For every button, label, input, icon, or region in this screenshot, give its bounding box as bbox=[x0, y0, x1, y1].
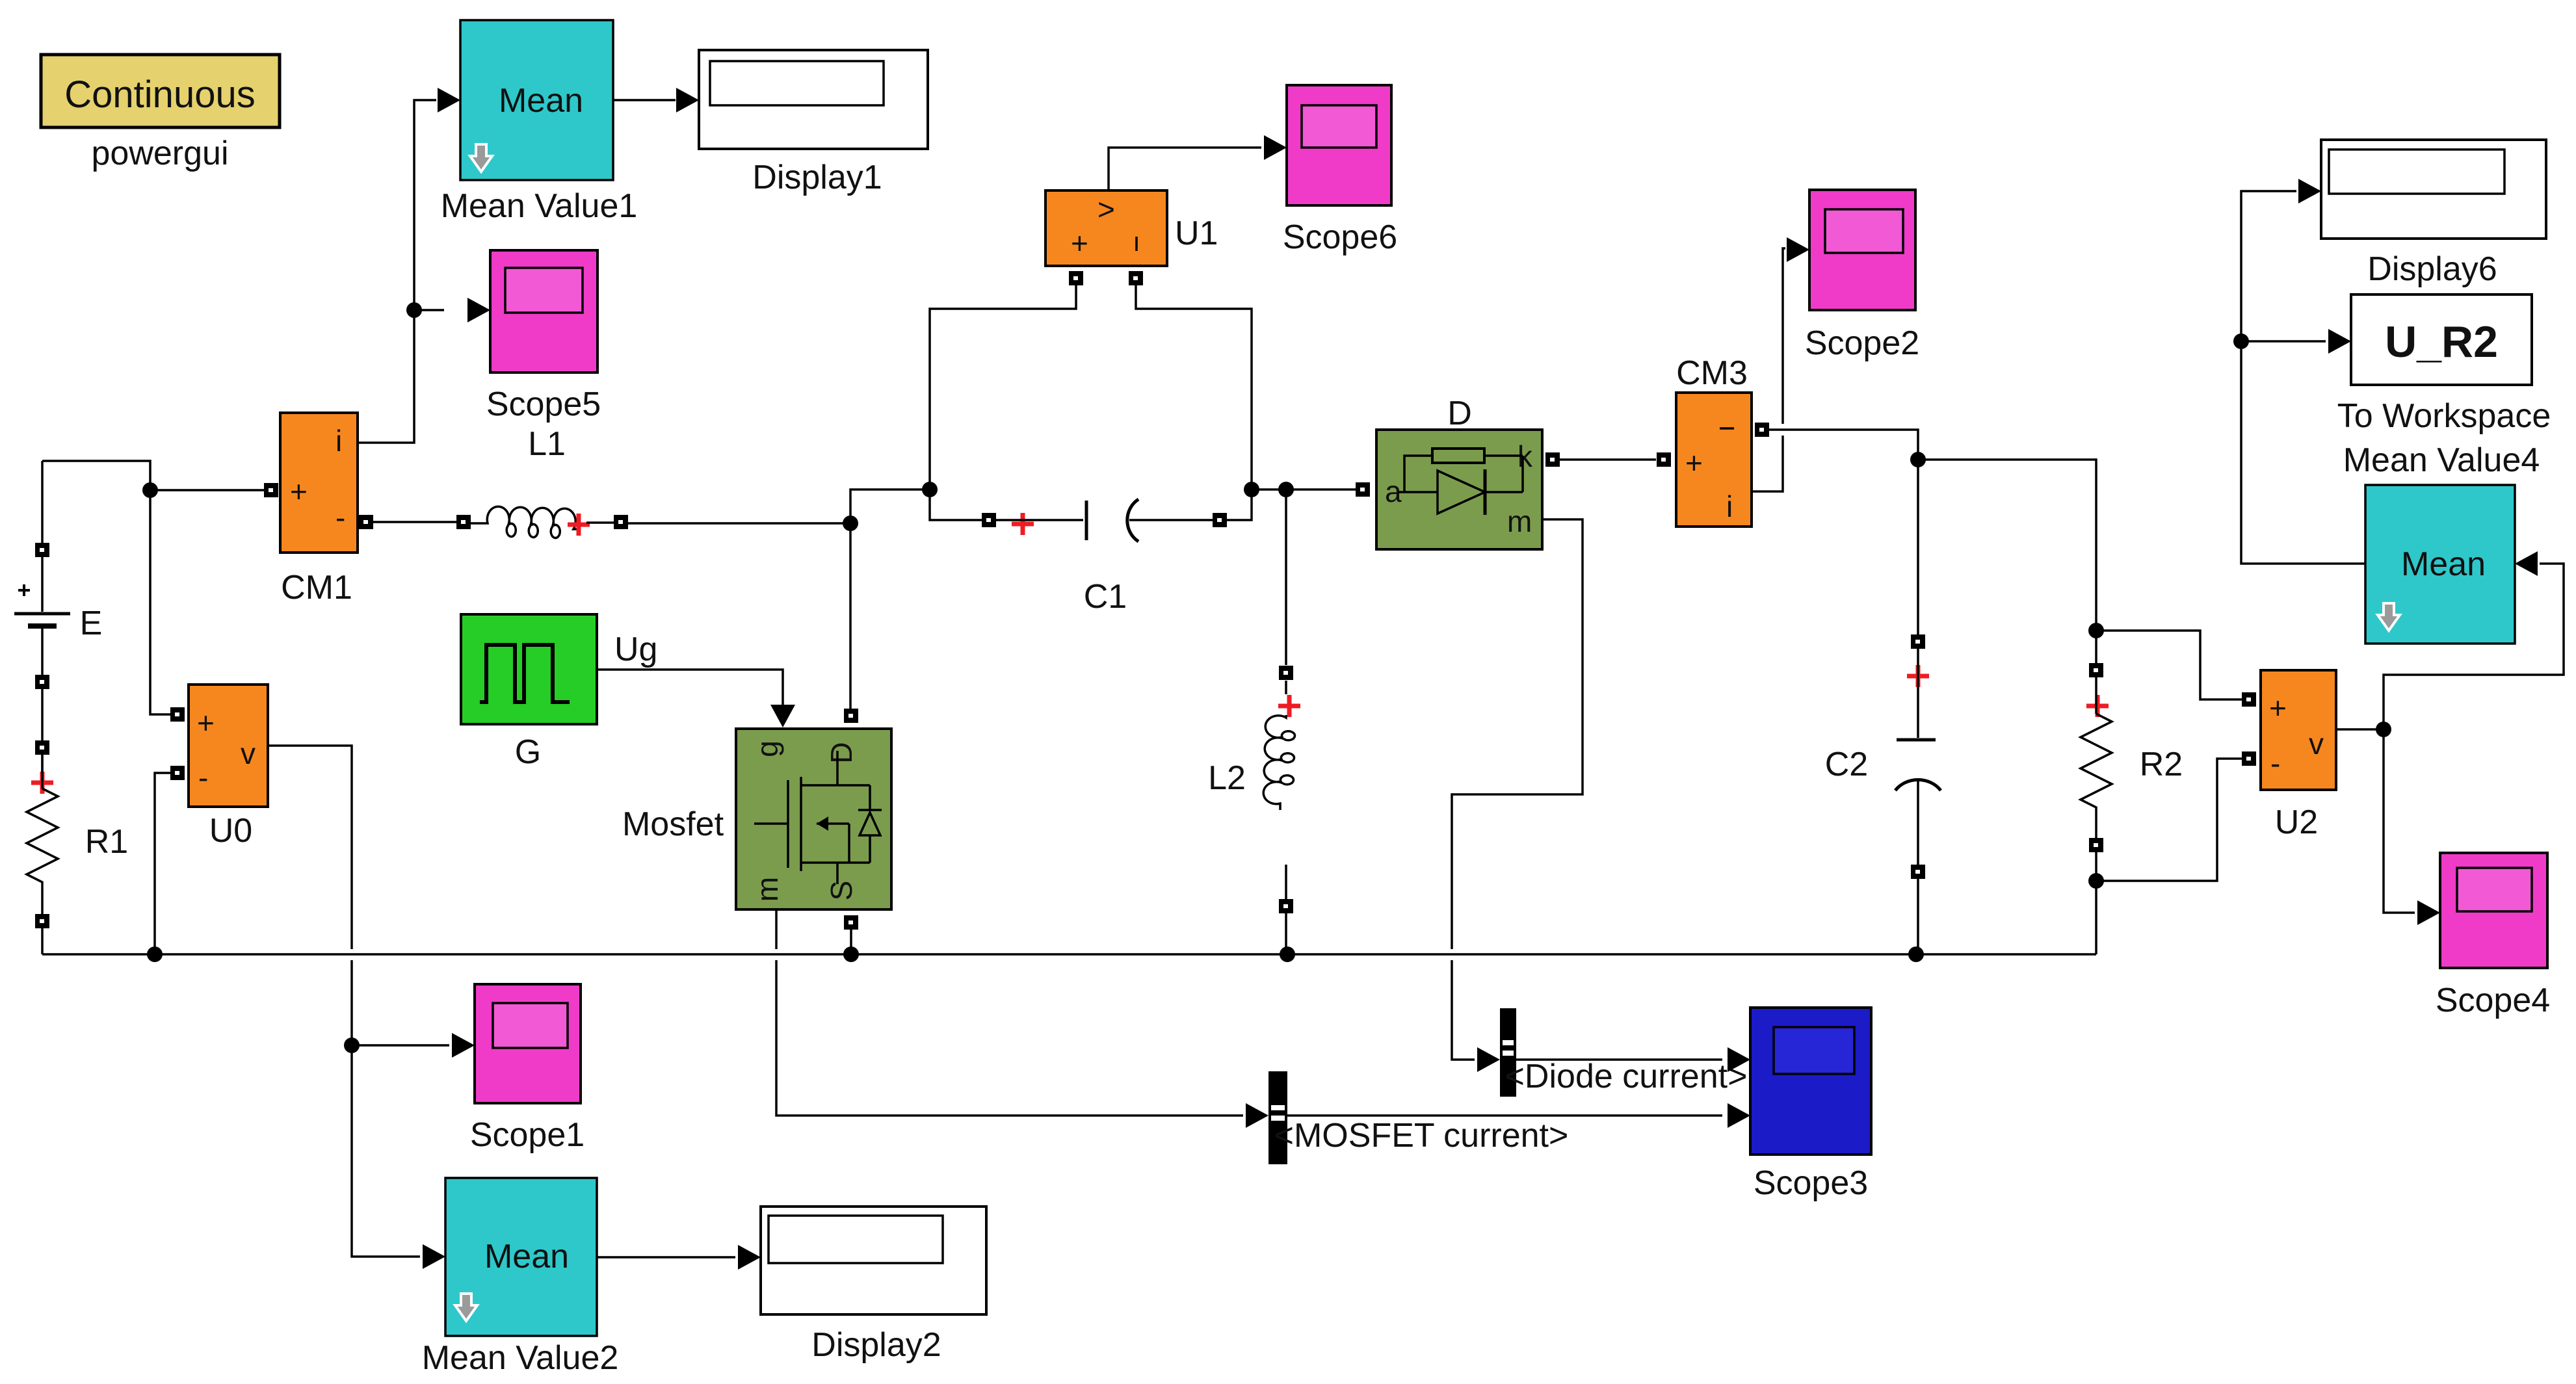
svg-text:Mean Value1: Mean Value1 bbox=[441, 187, 638, 225]
wire U0 minus to ground bus bbox=[155, 773, 177, 954]
wire CM3 minus output bbox=[1755, 423, 1769, 437]
svg-text:CM3: CM3 bbox=[1676, 354, 1748, 392]
diode D bbox=[1356, 430, 1542, 549]
wire R2 top to U2 plus bbox=[2096, 631, 2242, 699]
svg-text:Display1: Display1 bbox=[752, 159, 882, 196]
svg-text:U0: U0 bbox=[209, 812, 252, 850]
svg-text:i: i bbox=[1726, 490, 1733, 523]
inductor L1 bbox=[471, 506, 628, 538]
svg-text:+: + bbox=[1071, 226, 1088, 260]
resistor R1 bbox=[27, 740, 58, 954]
wire U2 to Scope4 bbox=[2384, 729, 2415, 913]
battery E bbox=[14, 461, 70, 783]
capacitor C1 bbox=[982, 499, 1227, 542]
node A (L1/Mosfet/C1) bbox=[843, 516, 858, 531]
svg-text:Scope2: Scope2 bbox=[1805, 324, 1919, 362]
wire CM1 i output to Mean Value1 / Scope5 bbox=[358, 100, 436, 443]
node battery/CM1/U0 junction bbox=[142, 482, 158, 498]
Scope4 bbox=[2440, 853, 2547, 968]
current measurement CM3 bbox=[1676, 393, 1752, 527]
wire U1 to Scope6 bbox=[1109, 148, 1261, 190]
wire Mean Value4 output to Display6 and To Workspace bbox=[2241, 191, 2365, 564]
svg-text:v: v bbox=[241, 737, 256, 770]
current measurement CM1 bbox=[264, 413, 358, 553]
svg-text:Scope4: Scope4 bbox=[2436, 982, 2550, 1019]
svg-text:+: + bbox=[2269, 691, 2287, 725]
powergui block (Continuous) bbox=[41, 55, 280, 127]
signal tap Diode current bbox=[1500, 1008, 1516, 1097]
svg-text:To Workspace: To Workspace bbox=[2337, 397, 2551, 435]
svg-text:C2: C2 bbox=[1825, 746, 1868, 783]
pulse generator G bbox=[461, 614, 597, 724]
svg-text:Display6: Display6 bbox=[2367, 250, 2497, 288]
svg-text:Scope5: Scope5 bbox=[486, 385, 601, 423]
capacitor C2 bbox=[1895, 460, 1941, 954]
node D (L2 top) bbox=[1278, 482, 1294, 497]
svg-text:-: - bbox=[335, 501, 345, 534]
voltage measurement U2 bbox=[2242, 670, 2336, 790]
svg-text:L1: L1 bbox=[528, 425, 566, 463]
svg-text:m: m bbox=[1507, 504, 1532, 538]
wire battery top to CM1 and U0 bbox=[42, 461, 264, 490]
wire CM3 i to Scope2 bbox=[1752, 248, 1785, 491]
Mosfet source port and wire to bus bbox=[844, 915, 858, 930]
wire D m to diode-current tap bbox=[1452, 519, 1583, 1060]
svg-text:m: m bbox=[750, 877, 784, 902]
svg-text:CM1: CM1 bbox=[281, 569, 352, 607]
svg-text:Mean Value2: Mean Value2 bbox=[422, 1339, 619, 1377]
svg-text:U1: U1 bbox=[1175, 215, 1218, 252]
svg-text:g: g bbox=[750, 740, 784, 757]
Scope1 bbox=[475, 984, 581, 1103]
svg-text:Mean: Mean bbox=[484, 1238, 569, 1275]
svg-text:Mean Value4: Mean Value4 bbox=[2343, 441, 2540, 479]
wire L1 to node A bbox=[628, 522, 850, 525]
wire bottom ground bus bbox=[42, 953, 2096, 956]
svg-text:L2: L2 bbox=[1208, 759, 1246, 797]
svg-text:Display2: Display2 bbox=[811, 1326, 941, 1364]
svg-text:R2: R2 bbox=[2140, 746, 2183, 783]
svg-text:U2: U2 bbox=[2275, 803, 2318, 841]
node ground bus left bbox=[147, 947, 163, 962]
signal tap MOSFET current bbox=[1268, 1071, 1287, 1164]
svg-text:D: D bbox=[1447, 395, 1472, 432]
Scope3 bbox=[1750, 1008, 1871, 1155]
voltage measurement U0 bbox=[170, 685, 268, 807]
svg-text:Scope3: Scope3 bbox=[1754, 1164, 1868, 1202]
svg-text:Mean: Mean bbox=[2401, 545, 2486, 583]
svg-text:<Diode current>: <Diode current> bbox=[1505, 1058, 1748, 1095]
svg-text:U_R2: U_R2 bbox=[2385, 317, 2498, 367]
svg-text:i: i bbox=[335, 424, 342, 458]
svg-text:G: G bbox=[515, 733, 541, 771]
svg-text:Scope1: Scope1 bbox=[470, 1116, 585, 1154]
Display2 bbox=[761, 1207, 986, 1314]
wire D k to CM3 bbox=[1545, 452, 1560, 467]
wire U0 v output down bbox=[268, 746, 420, 1257]
svg-text:Continuous: Continuous bbox=[64, 73, 255, 116]
svg-text:S: S bbox=[824, 881, 858, 901]
svg-text:Mosfet: Mosfet bbox=[622, 805, 724, 843]
svg-text:powergui: powergui bbox=[91, 135, 228, 172]
svg-text:E: E bbox=[80, 605, 103, 642]
wire Mosfet m output to MOSFET current tap bbox=[776, 909, 1243, 1116]
svg-text:+: + bbox=[290, 475, 308, 508]
svg-text:+: + bbox=[197, 706, 215, 740]
wire tap to Scope3 lower input bbox=[1287, 1114, 1722, 1117]
Mosfet block bbox=[736, 729, 891, 909]
voltage measurement U1 bbox=[1045, 190, 1167, 285]
svg-text:>: > bbox=[1097, 192, 1115, 226]
Scope5 bbox=[490, 250, 598, 372]
svg-text:Mean: Mean bbox=[499, 82, 583, 120]
wire R2 bottom to U2 minus bbox=[2096, 759, 2242, 881]
svg-text:Scope6: Scope6 bbox=[1283, 218, 1397, 256]
Mean Value4 block bbox=[2365, 485, 2515, 644]
wire C1 right to node C bbox=[1227, 490, 1252, 520]
Scope6 bbox=[1287, 85, 1391, 205]
To Workspace block U_R2 bbox=[2351, 294, 2532, 385]
svg-text:-: - bbox=[2270, 746, 2280, 780]
svg-text:-: - bbox=[198, 761, 208, 794]
svg-text:v: v bbox=[2309, 727, 2324, 761]
svg-text:Ug: Ug bbox=[614, 631, 657, 668]
Mosfet drain port bbox=[844, 709, 858, 723]
node R2 bottom bbox=[2088, 873, 2104, 889]
svg-text:<MOSFET current>: <MOSFET current> bbox=[1274, 1117, 1569, 1155]
Display1 bbox=[699, 50, 928, 149]
Mean Value1 block bbox=[460, 20, 613, 180]
Display6 bbox=[2321, 140, 2546, 239]
wire U2 to Mean Value4 input bbox=[2384, 564, 2564, 729]
wire CM1 minus to L1 bbox=[358, 521, 456, 523]
wire Mean Value2 to Display2 bbox=[597, 1256, 735, 1259]
node C2/bus bbox=[1908, 947, 1924, 962]
svg-text:D: D bbox=[824, 742, 858, 763]
resistor R2 bbox=[2081, 631, 2112, 954]
wire G to Mosfet gate bbox=[597, 670, 783, 706]
node L2/bus bbox=[1280, 947, 1295, 962]
inductor L2 bbox=[1263, 666, 1300, 954]
Mean Value2 block bbox=[445, 1178, 597, 1336]
Scope2 bbox=[1809, 190, 1915, 310]
svg-text:C1: C1 bbox=[1084, 578, 1127, 616]
wire tap to Scope3 upper input bbox=[1516, 1058, 1722, 1061]
node B (C1 left / U1 left) bbox=[922, 482, 938, 497]
wire U2 v output bbox=[2336, 728, 2384, 731]
svg-text:+: + bbox=[1685, 446, 1703, 480]
wire Mean Value1 to Display1 bbox=[613, 99, 676, 101]
svg-text:R1: R1 bbox=[85, 823, 128, 861]
